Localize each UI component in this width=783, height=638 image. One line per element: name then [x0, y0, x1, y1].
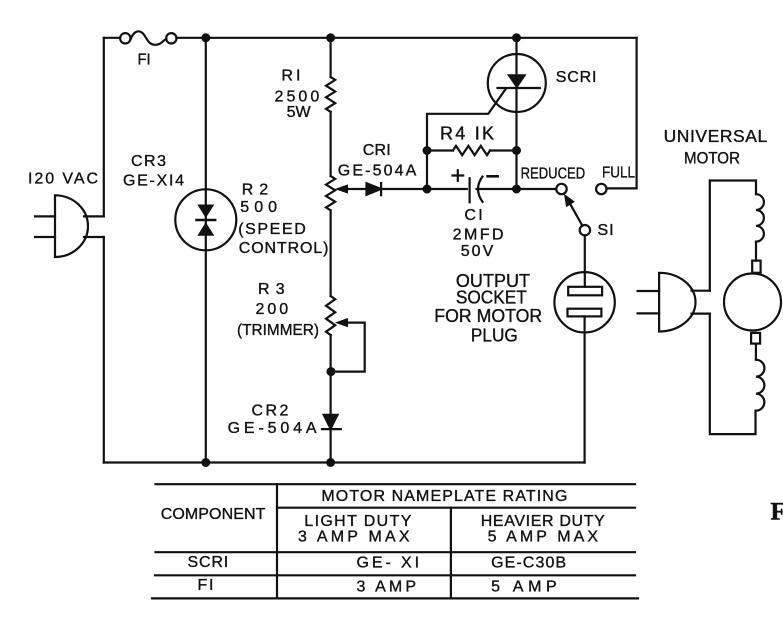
- svg-text:GE-C30B: GE-C30B: [491, 554, 566, 571]
- table rule under header: [277, 507, 635, 509]
- svg-text:MOTOR: MOTOR: [684, 149, 740, 167]
- resistor R1 2500 5W: [326, 77, 335, 112]
- svg-text:SOCKET: SOCKET: [456, 288, 527, 308]
- wire R2 wiper arm: [345, 188, 367, 190]
- svg-text:5W: 5W: [287, 104, 312, 121]
- table rule top: [152, 484, 638, 598]
- node junction bottom rail / CR2: [327, 459, 334, 466]
- node junction R4 left / gate: [424, 147, 431, 154]
- table rule under SCR1 row: [155, 574, 635, 576]
- svg-text:R3: R3: [258, 281, 285, 298]
- svg-text:50V: 50V: [461, 243, 494, 260]
- wire plug upper lead: [84, 215, 104, 217]
- node junction C1 line right: [513, 186, 520, 193]
- svg-text:CRI: CRI: [363, 142, 391, 159]
- diode CR2 GE-504A: [322, 415, 341, 429]
- C1 minus polarity mark: [488, 175, 498, 178]
- svg-text:SCRI: SCRI: [556, 69, 597, 86]
- node junction R3 bottom / wiper loop: [328, 368, 335, 375]
- wire motor loop upper left and top: [710, 181, 756, 291]
- svg-text:MOTOR NAMEPLATE RATING: MOTOR NAMEPLATE RATING: [321, 488, 567, 505]
- svg-text:SCRI: SCRI: [188, 554, 229, 571]
- brush upper of motor armature: [752, 261, 760, 273]
- R2 wiper arrowhead: [335, 184, 348, 193]
- resistor R4 1K: [427, 146, 517, 155]
- S1 pole terminal: [580, 225, 590, 235]
- table divider column 2: [450, 508, 452, 599]
- wire output socket down to bottom rail: [583, 316, 585, 462]
- C1 plus polarity mark: [453, 170, 464, 181]
- inductor L2 lower field winding: [756, 360, 765, 411]
- wire R4 left down to C1 line: [426, 151, 428, 190]
- svg-text:5 AMP MAX: 5 AMP MAX: [488, 529, 599, 546]
- svg-text:3 AMP MAX: 3 AMP MAX: [298, 528, 410, 545]
- R3 wiper arrowhead: [335, 318, 348, 327]
- wire top rail from fuse to right corner: [177, 37, 637, 39]
- node junction top rail / CR3 branch: [202, 34, 209, 41]
- node junction R4 right / cathode: [513, 147, 520, 154]
- diode CR1 GE-504A: [367, 183, 382, 195]
- svg-text:GE- XI: GE- XI: [357, 554, 420, 571]
- inductor L1 upper field winding: [756, 194, 764, 241]
- svg-text:FI: FI: [138, 51, 151, 68]
- armature M1 universal motor: [724, 274, 781, 331]
- svg-text:2500: 2500: [275, 88, 320, 105]
- table rule under duty row: [156, 551, 636, 553]
- wire bottom rail: [104, 461, 585, 463]
- svg-text:CR2: CR2: [252, 403, 289, 420]
- terminal FULL: [596, 184, 606, 194]
- wire field winding to upper brush: [755, 242, 757, 261]
- node junction top rail / R1: [327, 34, 334, 41]
- svg-text:R4 IK: R4 IK: [440, 124, 494, 144]
- wire R3 wiper loop to bottom of R3: [331, 323, 365, 372]
- switch S1 blade: [567, 198, 583, 226]
- table rule bottom: [152, 597, 638, 599]
- potentiometer R2 500 speed control: [326, 176, 335, 210]
- svg-text:200: 200: [256, 301, 289, 318]
- wire top rail from left corner to fuse: [104, 37, 120, 39]
- wire motor loop lower left and bottom: [710, 314, 756, 435]
- wire left vertical lower segment: [103, 237, 105, 463]
- wire left vertical upper segment: [103, 38, 105, 217]
- svg-text:2MFD: 2MFD: [453, 227, 504, 244]
- wire motor plug upper lead: [692, 290, 710, 292]
- S1 blade arrowhead: [564, 194, 575, 208]
- svg-text:CONTROL): CONTROL): [239, 240, 329, 257]
- wire plug lower lead: [84, 236, 104, 238]
- svg-text:500: 500: [240, 199, 277, 216]
- SCR U1 SCR1: [488, 38, 546, 112]
- svg-text:3 AMP: 3 AMP: [357, 578, 417, 595]
- node junction C1 line left: [424, 186, 431, 193]
- potentiometer R3 200 trimmer: [326, 296, 335, 335]
- table divider column 1: [276, 484, 278, 598]
- fuse F1: [120, 31, 176, 44]
- wire CR1 cathode to node A: [381, 188, 427, 190]
- svg-text:GE-504A: GE-504A: [228, 420, 317, 437]
- svg-text:UNIVERSAL: UNIVERSAL: [664, 126, 768, 146]
- node junction bottom rail / CR3 branch: [202, 459, 209, 466]
- svg-text:CR3: CR3: [131, 153, 166, 170]
- svg-text:REDUCED: REDUCED: [521, 165, 586, 182]
- wire motor plug lower lead: [692, 313, 710, 315]
- wire FULL terminal up to top rail: [607, 38, 637, 189]
- plug P1 120 VAC line plug: [35, 195, 88, 257]
- output socket J1: [554, 272, 614, 332]
- svg-text:5 AMP: 5 AMP: [491, 578, 557, 595]
- svg-text:COMPONENT: COMPONENT: [161, 506, 266, 523]
- wire S1 pole to output socket: [584, 235, 586, 272]
- wire SCR1 cathode vertical to C1 line: [515, 88, 517, 189]
- brush lower of motor armature: [751, 333, 760, 344]
- svg-text:GE-XI4: GE-XI4: [123, 172, 184, 189]
- svg-text:CI: CI: [464, 207, 482, 224]
- svg-text:(SPEED: (SPEED: [238, 221, 306, 238]
- svg-text:I20 VAC: I20 VAC: [28, 171, 98, 188]
- svg-text:GE-504A: GE-504A: [338, 162, 417, 179]
- svg-text:FOR MOTOR: FOR MOTOR: [434, 306, 542, 326]
- svg-text:PLUG: PLUG: [471, 325, 518, 345]
- svg-text:SI: SI: [598, 222, 614, 239]
- capacitor C1 2MFD 50V: [427, 177, 556, 203]
- wire CR3 branch vertical: [205, 38, 207, 463]
- terminal REDUCED: [556, 184, 566, 194]
- svg-text:RI: RI: [281, 68, 300, 85]
- svg-text:(TRIMMER): (TRIMMER): [237, 322, 319, 339]
- node junction top rail / SCR1 anode: [513, 34, 520, 41]
- svg-text:F: F: [771, 499, 783, 526]
- svg-text:R2: R2: [242, 181, 268, 198]
- diac CR3 GE-X14: [175, 189, 236, 250]
- plug P2 motor plug: [638, 273, 696, 332]
- svg-text:FULL: FULL: [602, 165, 635, 182]
- wire lower brush to field winding: [755, 344, 757, 360]
- wire resistor branch vertical segments: [330, 38, 332, 463]
- svg-text:FI: FI: [198, 577, 214, 594]
- wire SCR1 gate lead: [427, 89, 506, 151]
